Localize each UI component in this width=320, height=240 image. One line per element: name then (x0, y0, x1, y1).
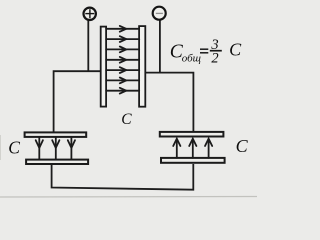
svg-text:C: C (236, 136, 249, 156)
svg-text:C: C (8, 138, 20, 158)
svg-text:общ: общ (182, 53, 201, 65)
svg-text:C: C (121, 111, 132, 128)
svg-text:2: 2 (211, 51, 218, 67)
svg-text:C: C (229, 40, 242, 60)
